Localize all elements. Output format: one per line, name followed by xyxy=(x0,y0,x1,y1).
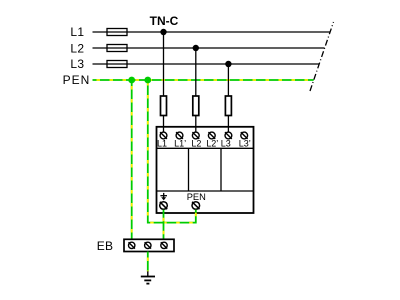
wire L3 xyxy=(93,63,320,65)
svg-text:TN-C: TN-C xyxy=(150,14,179,28)
SPD divider above PEN section xyxy=(157,190,254,192)
node TN-C junction on L1 xyxy=(160,29,166,35)
line-break diagonal xyxy=(310,22,334,91)
node PEN junction 2 xyxy=(144,77,151,84)
fuse F3 vertical xyxy=(225,96,231,116)
fuse on L2 xyxy=(107,45,127,52)
node junction on L2 xyxy=(193,45,199,51)
node junction on L3 xyxy=(225,61,231,67)
svg-text:PEN: PEN xyxy=(63,73,91,87)
EB terminal 2 xyxy=(145,242,151,248)
wire PEN drop to device PEN terminal xyxy=(148,80,196,223)
terminal L2' xyxy=(208,132,215,139)
terminal PEN left xyxy=(160,202,168,210)
wire L2 drop xyxy=(195,48,197,132)
svg-text:L1: L1 xyxy=(157,139,167,149)
fuse on L1 xyxy=(107,29,127,36)
SPD module divider 1 xyxy=(188,148,190,191)
SPD divider under terminals xyxy=(157,147,254,149)
svg-text:L2’: L2’ xyxy=(206,139,218,149)
wire device PEN terminal to EB terminal 3 xyxy=(163,210,165,240)
ground xyxy=(141,271,155,283)
wire EB to earth xyxy=(147,252,149,272)
EB terminal block outline xyxy=(124,239,174,251)
fuse on L3 xyxy=(107,61,127,68)
terminal L1 xyxy=(160,132,167,139)
fuse F2 vertical xyxy=(193,96,199,116)
terminal L3 xyxy=(225,132,232,139)
svg-text:PEN: PEN xyxy=(187,192,206,202)
svg-text:L3: L3 xyxy=(221,139,231,149)
EB terminal 1 xyxy=(129,242,135,248)
wire PEN bus xyxy=(93,79,314,81)
svg-text:L2: L2 xyxy=(70,41,84,55)
earth arrow symbol xyxy=(160,193,167,201)
wire L3 drop xyxy=(227,64,229,132)
svg-text:EB: EB xyxy=(97,239,114,253)
svg-text:L3’: L3’ xyxy=(239,139,251,149)
wire L1 xyxy=(93,31,331,33)
svg-text:L2: L2 xyxy=(191,139,201,149)
EB terminal 3 xyxy=(161,242,167,248)
fuse F1 vertical xyxy=(161,96,167,116)
wire L1 drop xyxy=(163,32,165,132)
node PEN junction 1 xyxy=(128,77,135,84)
terminal L1' xyxy=(176,132,183,139)
svg-text:L1: L1 xyxy=(70,25,84,39)
SPD device outline xyxy=(157,127,254,213)
terminal L2 xyxy=(192,132,199,139)
SPD module divider 2 xyxy=(220,148,222,191)
wire L2 xyxy=(93,47,325,49)
svg-text:L1’: L1’ xyxy=(174,139,186,149)
svg-text:L3: L3 xyxy=(70,57,84,71)
wire PEN drop to EB terminal 1 xyxy=(131,80,133,239)
terminal PEN right xyxy=(192,202,200,210)
terminal L3' xyxy=(241,132,248,139)
